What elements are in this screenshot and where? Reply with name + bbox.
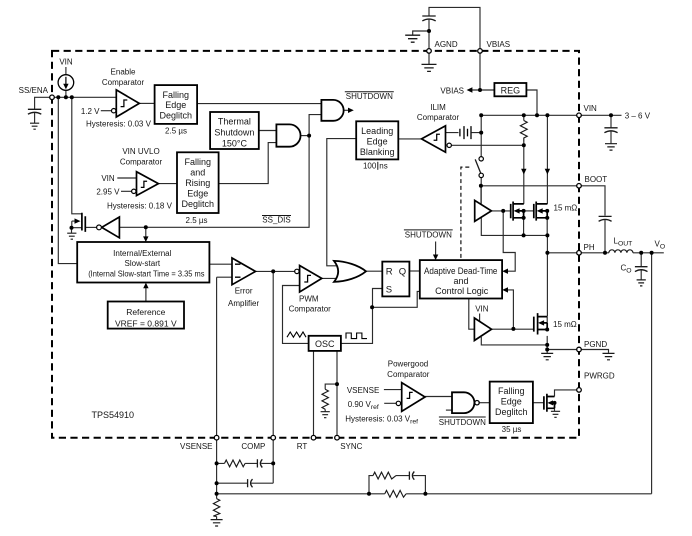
svg-text:VIN: VIN [59,58,73,67]
svg-text:Falling: Falling [498,386,525,396]
svg-text:Deglitch: Deglitch [160,111,193,121]
svg-text:Enable: Enable [111,68,136,77]
svg-text:Comparator: Comparator [387,370,430,379]
svg-text:Reference: Reference [126,307,165,317]
svg-text:SS/ENA: SS/ENA [19,86,49,95]
svg-text:Comparator: Comparator [417,113,460,122]
svg-text:Edge: Edge [165,100,186,110]
svg-text:Shutdown: Shutdown [214,127,254,137]
svg-text:Q: Q [399,267,406,278]
svg-text:VIN UVLO: VIN UVLO [122,147,159,156]
svg-text:SHUTDOWN: SHUTDOWN [405,231,452,240]
svg-text:BOOT: BOOT [585,175,608,184]
svg-text:1.2 V: 1.2 V [81,107,100,116]
svg-text:150°C: 150°C [222,138,248,148]
svg-text:Internal/External: Internal/External [113,249,171,258]
svg-text:R: R [386,267,393,278]
svg-text:Control Logic: Control Logic [435,286,489,296]
svg-text:VIN: VIN [584,104,598,113]
svg-text:Rising: Rising [185,178,210,188]
svg-text:ILIM: ILIM [430,103,446,112]
svg-text:2.5 µs: 2.5 µs [186,216,208,225]
svg-text:2.5 µs: 2.5 µs [165,126,187,135]
svg-text:PH: PH [584,243,595,252]
svg-text:PWM: PWM [299,295,319,304]
svg-text:Edge: Edge [501,397,522,407]
svg-text:Leading: Leading [361,126,393,136]
svg-text:Comparator: Comparator [120,158,163,167]
svg-text:35 µs: 35 µs [502,425,522,434]
svg-text:3 – 6 V: 3 – 6 V [625,112,651,121]
svg-text:Thermal: Thermal [218,116,251,126]
svg-text:Edge: Edge [367,137,388,147]
svg-text:Powergood: Powergood [388,359,428,368]
svg-text:Comparator: Comparator [102,78,145,87]
svg-text:S: S [386,284,392,295]
svg-text:AGND: AGND [435,40,458,49]
svg-text:and: and [190,168,205,178]
svg-text:2.95 V: 2.95 V [96,187,120,196]
svg-text:ns: ns [379,161,387,170]
svg-text:Error: Error [235,286,253,295]
svg-text:SHUTDOWN: SHUTDOWN [439,418,486,427]
svg-text:VSENSE: VSENSE [180,442,212,451]
svg-text:OSC: OSC [315,339,335,349]
svg-text:Falling: Falling [163,90,190,100]
svg-text:Slow-start: Slow-start [125,259,161,268]
svg-text:VSENSE: VSENSE [347,386,379,395]
svg-text:Hysteresis: 0.03 V: Hysteresis: 0.03 V [86,120,152,129]
svg-text:15 mΩ: 15 mΩ [553,320,577,329]
svg-text:Falling: Falling [185,157,212,167]
svg-text:Deglitch: Deglitch [495,407,528,417]
svg-text:100: 100 [363,161,377,170]
svg-text:RT: RT [297,442,308,451]
svg-text:VBIAS: VBIAS [440,86,464,95]
svg-text:VIN: VIN [475,305,489,314]
svg-text:VIN: VIN [101,174,115,183]
svg-text:TPS54910: TPS54910 [92,410,135,420]
svg-text:VREF = 0.891 V: VREF = 0.891 V [115,318,177,328]
svg-text:Deglitch: Deglitch [182,199,215,209]
svg-text:PGND: PGND [584,340,607,349]
svg-text:Blanking: Blanking [360,147,395,157]
svg-text:REG: REG [501,85,521,95]
svg-text:Hysteresis: 0.18 V: Hysteresis: 0.18 V [107,202,173,211]
svg-text:VBIAS: VBIAS [487,40,511,49]
svg-text:SYNC: SYNC [340,442,362,451]
svg-text:Amplifier: Amplifier [228,299,259,308]
svg-text:Comparator: Comparator [289,304,332,313]
svg-text:Edge: Edge [187,189,208,199]
svg-text:COMP: COMP [241,442,265,451]
svg-text:PWRGD: PWRGD [584,372,615,381]
svg-text:SS_DIS: SS_DIS [262,216,290,225]
svg-text:15 mΩ: 15 mΩ [554,204,578,213]
svg-text:and: and [453,276,468,286]
svg-text:Adaptive Dead-Time: Adaptive Dead-Time [424,266,498,276]
svg-text:(Internal Slow-start Time = 3.: (Internal Slow-start Time = 3.35 ms [88,269,204,278]
svg-text:SHUTDOWN: SHUTDOWN [346,92,393,101]
